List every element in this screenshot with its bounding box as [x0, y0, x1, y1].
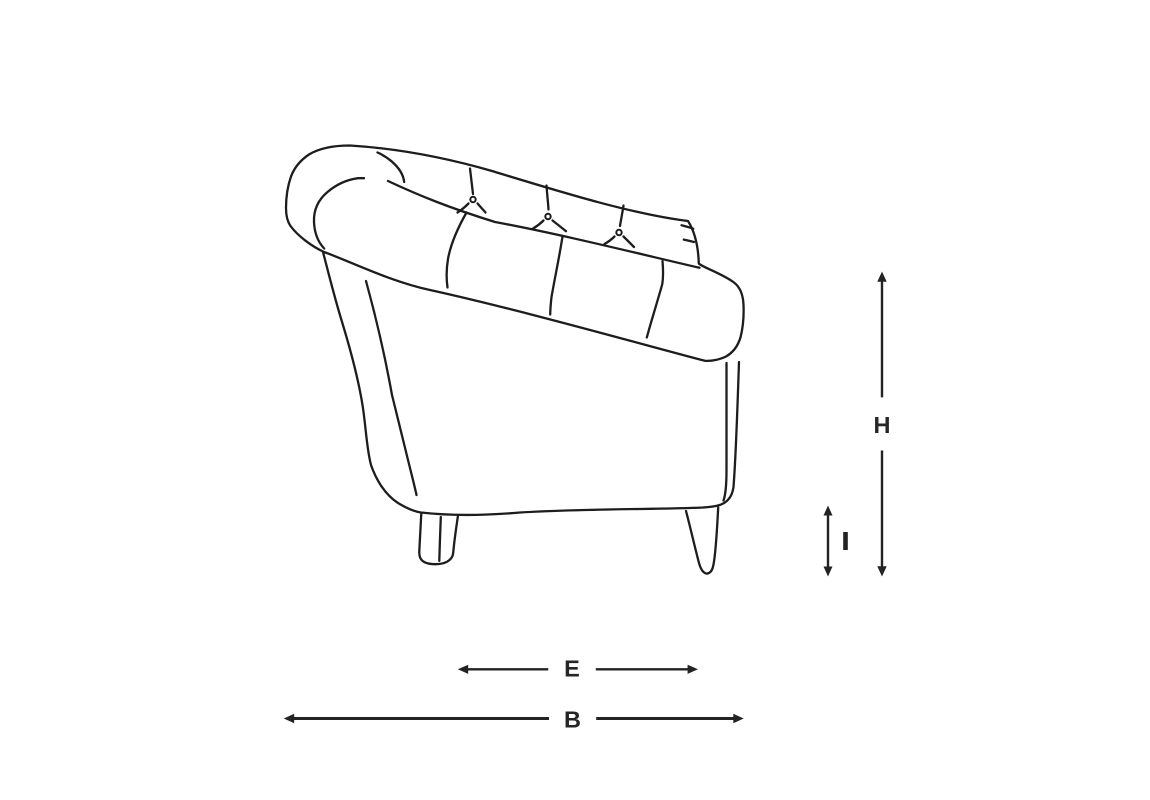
back leg outline: [686, 508, 718, 574]
arm curl top arc: [378, 153, 405, 183]
arrowhead H bottom: [877, 566, 886, 576]
rail midline (top face / inner face boundary): [388, 181, 700, 268]
body front edge and bottom edge: [323, 252, 718, 515]
svg-text:E: E: [564, 655, 580, 681]
button 2 left foot: [533, 221, 544, 229]
lower face pleat 3: [647, 261, 663, 338]
dimension I line: [827, 513, 829, 569]
dimension B line left segment: [293, 717, 550, 720]
arrowhead I bottom: [824, 567, 833, 577]
button 2 circle: [545, 214, 550, 219]
arm curl inner C arc: [314, 178, 364, 248]
back outer edge: [718, 362, 739, 506]
front leg inner line: [439, 517, 441, 561]
lower face pleat 1: [447, 213, 467, 288]
svg-text:H: H: [874, 412, 891, 438]
front leg outline: [419, 513, 458, 564]
button 2 right foot: [553, 221, 567, 232]
lower face pleat 2: [550, 237, 562, 315]
dimension B line right segment: [596, 717, 735, 720]
arrowhead H top: [877, 272, 886, 282]
back edge tick 1: [682, 225, 694, 228]
button 1 circle: [470, 197, 475, 202]
back edge tick 2: [684, 240, 694, 242]
button 3 right foot: [624, 237, 635, 248]
back inner edge: [724, 363, 727, 501]
arm/back rail outer silhouette: [286, 146, 744, 361]
svg-text:B: B: [564, 707, 581, 733]
dimension E line right segment: [596, 668, 689, 670]
arm front pleat line: [366, 281, 417, 495]
button 3 top pleat: [620, 206, 624, 227]
dimension H line top segment: [881, 281, 883, 398]
dimension H line bottom segment: [881, 451, 883, 568]
button 1 left foot: [458, 204, 469, 213]
button 1 right foot: [478, 204, 486, 213]
arrowhead B right: [733, 714, 743, 723]
label I: [843, 532, 848, 550]
arrowhead E right: [688, 665, 698, 674]
dimension E line left segment: [467, 668, 548, 670]
arrowhead E left: [458, 665, 468, 674]
button 2 top pleat: [547, 186, 549, 210]
arrowhead B left: [284, 714, 294, 723]
button 3 circle: [616, 230, 621, 235]
button 1 top pleat: [470, 169, 473, 195]
button 3 left foot: [605, 237, 615, 245]
arrowhead I top: [824, 506, 833, 516]
